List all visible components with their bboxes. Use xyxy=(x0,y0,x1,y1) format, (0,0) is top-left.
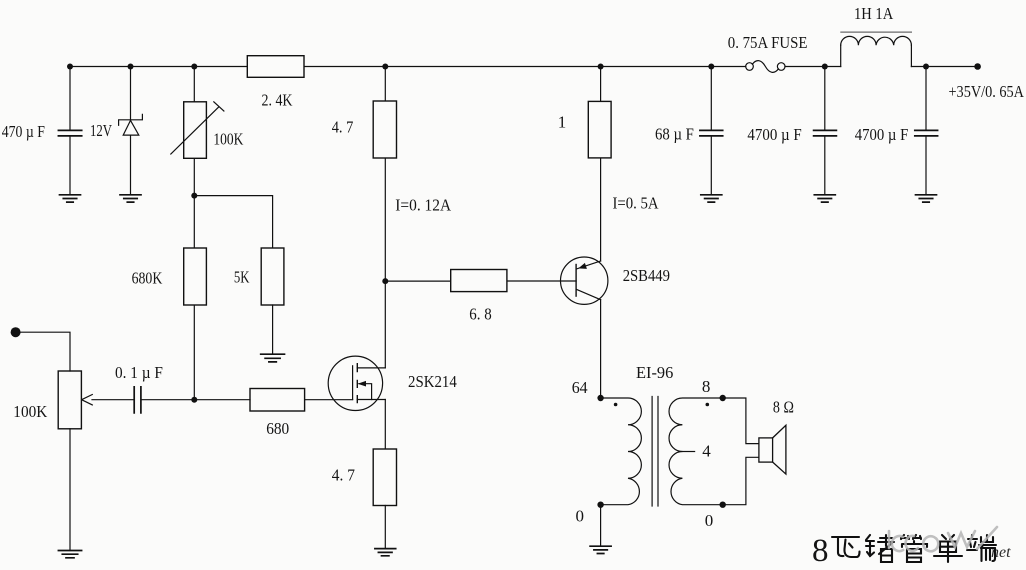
rheostat RP1 diagonal arrow xyxy=(171,102,224,154)
resistor R2 2.4K body xyxy=(247,56,304,78)
transformer T1 secondary winding xyxy=(669,398,723,505)
node rail at 68uF xyxy=(708,64,714,70)
capacitor 68uF stems xyxy=(710,67,712,195)
node T1 secondary bottom xyxy=(720,502,726,508)
node rail at 4700uF no2 xyxy=(923,64,929,70)
capacitor 4700uF no1 plates xyxy=(814,130,837,136)
capacitor 4700uF no1 stems xyxy=(824,67,826,195)
svg-text:2SB449: 2SB449 xyxy=(623,266,670,285)
transformer T1 primary winding xyxy=(601,398,642,505)
ground under C1 xyxy=(60,195,81,202)
svg-text:68 µ F: 68 µ F xyxy=(655,125,694,144)
capacitor C1 470uF stems xyxy=(69,67,71,195)
svg-text:0. 75A FUSE: 0. 75A FUSE xyxy=(728,33,808,52)
svg-text:470 µ F: 470 µ F xyxy=(2,122,45,141)
capacitor 0.1uF right wire xyxy=(142,399,250,401)
svg-text:4700 µ F: 4700 µ F xyxy=(855,125,909,144)
title char WA (tile) xyxy=(832,537,860,557)
ground under 68uF xyxy=(701,195,722,202)
fuse F1 wave element xyxy=(752,61,778,73)
wire T1 primary bottom to ground xyxy=(600,505,602,547)
rheostat RP1 100K wires xyxy=(193,67,195,196)
inductor L1 winding bumps xyxy=(841,36,912,45)
resistor 6.8 wires xyxy=(385,280,576,282)
svg-text:12V: 12V xyxy=(90,121,113,140)
node rail at R3 xyxy=(382,64,388,70)
resistor R5 680 body xyxy=(250,389,305,412)
transistor Q2 collector line xyxy=(577,289,601,299)
transistor Q2 emitter arrow xyxy=(578,263,587,269)
potentiometer RP2 wiper arrow xyxy=(82,395,93,405)
title 8W germanium single-ended : digit 8 xyxy=(812,533,829,569)
ground under R4 xyxy=(375,549,396,556)
potentiometer RP2 100K body xyxy=(58,371,81,429)
svg-text:0: 0 xyxy=(576,507,585,526)
svg-text:6. 8: 6. 8 xyxy=(469,305,491,324)
fuse F1 right cap xyxy=(777,63,785,71)
transformer T1 4-ohm tap stub xyxy=(682,451,694,453)
svg-text:EI-96: EI-96 xyxy=(636,363,673,382)
ground under T1 xyxy=(590,546,611,553)
input terminal dot xyxy=(11,327,21,337)
svg-text:0. 1 µ F: 0. 1 µ F xyxy=(115,363,163,382)
resistor R3 4.7 upper body xyxy=(373,101,396,158)
wire supply rail left segment xyxy=(70,66,746,68)
svg-text:8: 8 xyxy=(812,533,829,569)
node rail at D1 xyxy=(128,64,134,70)
speaker LS1 driver box xyxy=(759,438,773,462)
resistor R3 4.7 upper trunk xyxy=(384,67,386,282)
capacitor 0.1uF left wire xyxy=(92,399,134,401)
resistor R1 1 ohm body xyxy=(588,101,611,157)
transformer T1 core lines xyxy=(652,397,658,507)
svg-text:0: 0 xyxy=(705,511,714,530)
wire Q2 emitter up to R1 xyxy=(600,158,602,261)
wire 5K to ground xyxy=(272,305,274,354)
ground under RP2 xyxy=(58,551,81,558)
capacitor 4700uF no2 plates xyxy=(915,130,938,136)
resistor R4 4.7 lower body xyxy=(373,449,396,506)
capacitor 68uF plates xyxy=(700,130,723,136)
transistor Q2 emitter line xyxy=(577,261,601,269)
inductor L1 risers xyxy=(841,45,912,66)
svg-text:+35V/0. 65A: +35V/0. 65A xyxy=(949,82,1025,101)
ground under 4700uF no1 xyxy=(814,195,835,202)
wire supply rail mid segment (fuse to inductor) xyxy=(785,66,841,68)
zener diode D1 12V stem top xyxy=(130,67,132,120)
svg-text:1H 1A: 1H 1A xyxy=(854,4,894,23)
wire trunk to Q1 drain xyxy=(384,281,386,368)
ground under 5K xyxy=(261,354,285,362)
svg-text:4: 4 xyxy=(702,442,711,461)
zener diode D1 stem bottom xyxy=(130,135,132,195)
node T1 secondary top xyxy=(720,395,726,401)
mosfet Q1 gate bar xyxy=(352,366,354,400)
svg-text:4. 7: 4. 7 xyxy=(332,118,354,137)
svg-text:2. 4K: 2. 4K xyxy=(262,91,294,110)
svg-text:2SK214: 2SK214 xyxy=(408,372,457,391)
terminal +35V output dot xyxy=(974,63,981,70)
svg-text:5K: 5K xyxy=(234,268,250,287)
wire pot bottom to ground xyxy=(69,429,71,551)
mosfet Q1 source stub xyxy=(357,399,385,401)
resistor 5K body xyxy=(261,248,284,305)
wire gate lead xyxy=(305,399,353,401)
wire R4 to ground xyxy=(384,506,386,549)
node junction 680K / cap / 680 xyxy=(191,397,197,403)
ground under D1 xyxy=(120,195,141,202)
title char ZHE (germanium) xyxy=(866,535,894,562)
zener diode D1 cathode bar xyxy=(119,114,143,125)
wire supply rail right segment (inductor to +35V terminal) xyxy=(911,66,977,68)
mosfet Q1 substrate arrow xyxy=(359,384,372,400)
fuse F1 left cap xyxy=(746,63,754,71)
speaker LS1 horn xyxy=(773,425,786,474)
svg-text:100K: 100K xyxy=(13,402,48,421)
mosfet Q1 channel segments xyxy=(356,364,358,403)
transistor Q2 circle xyxy=(561,257,608,304)
title char GUAN (tube) xyxy=(901,535,927,562)
node rail at 4700uF no1 xyxy=(822,64,828,70)
phasing dot secondary xyxy=(706,403,710,407)
inductor L1 core bar xyxy=(841,31,912,33)
resistor R1 1 ohm trunk top xyxy=(600,67,602,102)
svg-text:680: 680 xyxy=(266,419,289,438)
wire Q2 collector down to transformer xyxy=(600,300,602,398)
svg-text:100K: 100K xyxy=(213,130,244,149)
svg-text:8: 8 xyxy=(702,377,711,396)
wire node to 5K branch xyxy=(194,196,272,248)
node T1 primary bottom xyxy=(597,502,603,508)
svg-text:64: 64 xyxy=(572,378,588,397)
phasing dot primary xyxy=(614,403,618,407)
node junction at 6.8 resistor xyxy=(382,278,388,284)
svg-text:I=0. 5A: I=0. 5A xyxy=(613,193,660,212)
title char DUAN (ended) xyxy=(967,535,996,561)
node T1 primary top xyxy=(597,395,603,401)
svg-text:I=0. 12A: I=0. 12A xyxy=(395,195,451,214)
svg-text:8 Ω: 8 Ω xyxy=(773,398,794,417)
title char DAN (single) xyxy=(934,535,962,562)
wire secondary 0 tap to speaker xyxy=(723,457,759,504)
wire Q1 source down xyxy=(384,400,386,450)
resistor 680K trunk xyxy=(193,196,195,400)
mosfet Q1 drain stub xyxy=(357,367,385,369)
node rail at RP1 xyxy=(191,64,197,70)
svg-text:1: 1 xyxy=(558,113,567,132)
resistor 6.8 body xyxy=(451,270,507,292)
node junction RP1 bottom xyxy=(191,193,197,199)
svg-text:net: net xyxy=(991,544,1011,561)
wire secondary 8 tap to speaker xyxy=(723,398,759,444)
rheostat RP1 100K body xyxy=(184,102,207,159)
transistor Q2 base bar xyxy=(575,265,577,297)
mosfet Q1 2SK214 circle xyxy=(328,356,382,410)
node rail at R1 xyxy=(598,64,604,70)
watermark grey logo overlay xyxy=(889,527,997,551)
zener diode D1 triangle xyxy=(123,120,139,135)
capacitor 0.1uF plates xyxy=(134,387,141,413)
wire pot top to input terminal xyxy=(20,332,70,371)
svg-text:680K: 680K xyxy=(132,269,163,288)
svg-text:4. 7: 4. 7 xyxy=(332,466,356,485)
node rail at C1 xyxy=(67,64,73,70)
capacitor C1 470uF plates xyxy=(58,130,81,136)
capacitor 4700uF no2 stems xyxy=(925,67,927,195)
ground under 4700uF no2 xyxy=(916,195,937,202)
resistor 680K body xyxy=(184,248,207,305)
svg-text:4700 µ F: 4700 µ F xyxy=(747,125,801,144)
